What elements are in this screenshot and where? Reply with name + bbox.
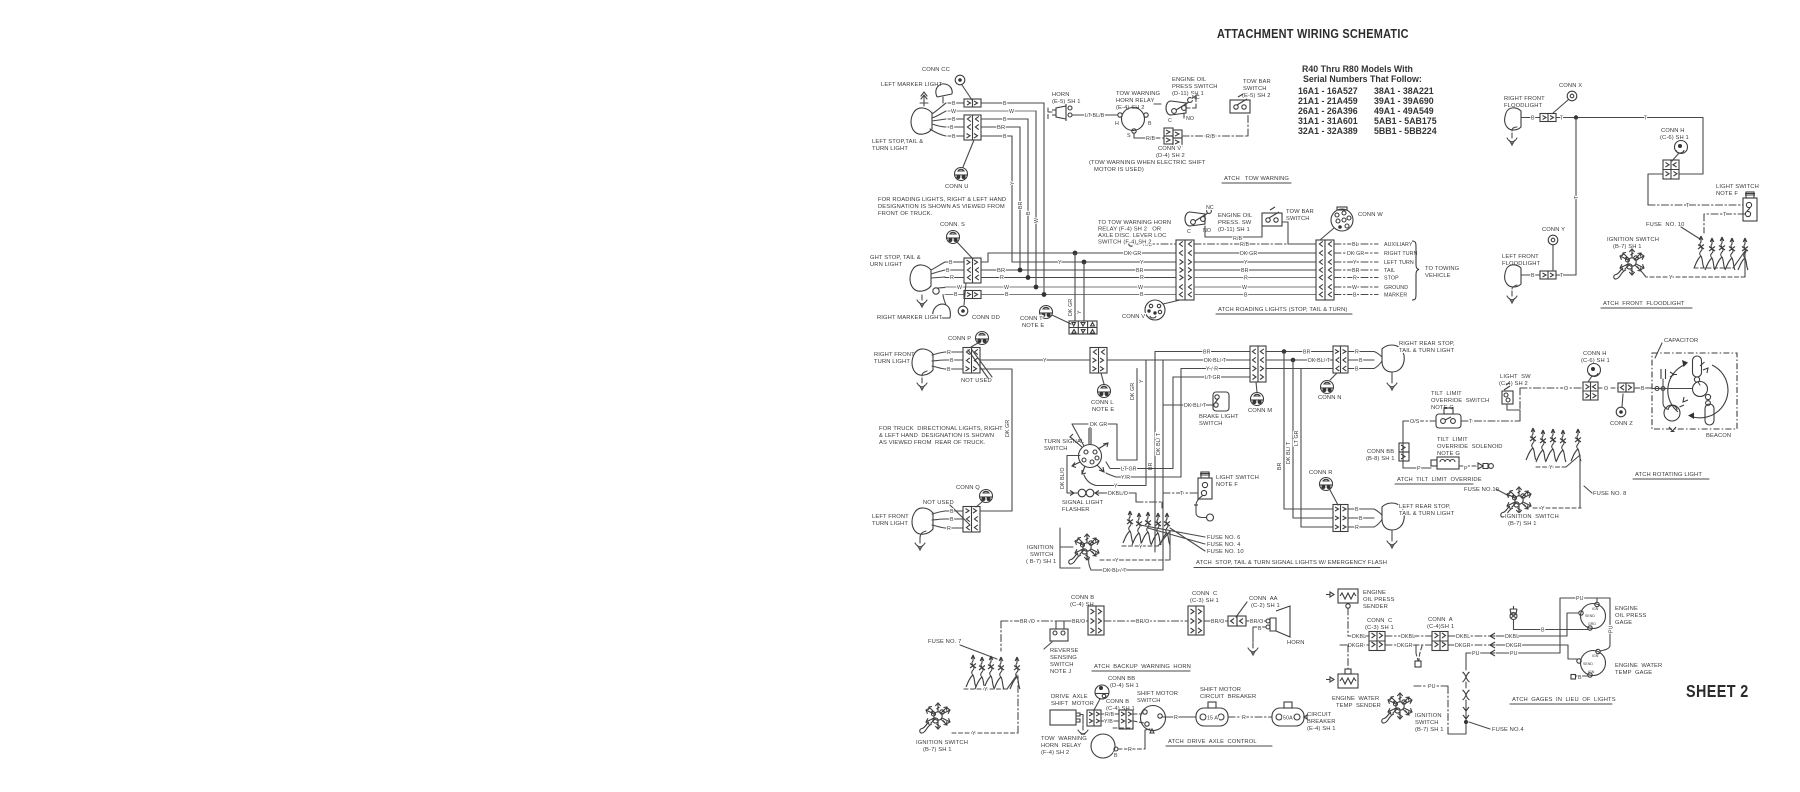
svg-text:DK BL/ T: DK BL/ T [1184, 403, 1207, 409]
wire leader conn CC to connector [962, 85, 972, 100]
svg-text:Y: Y [1139, 379, 1145, 383]
wire B row1 [948, 102, 1044, 104]
svg-text:FUSE NO. 7: FUSE NO. 7 [928, 639, 961, 645]
svg-text:IGN: IGN [1588, 670, 1595, 674]
connector CONN S [947, 231, 960, 244]
DK BL/T wire bottom [1091, 569, 1163, 571]
svg-text:B: B [1114, 753, 1118, 759]
svg-text:R: R [1242, 715, 1246, 721]
svg-text:TURN LIGHT: TURN LIGHT [874, 359, 910, 365]
svg-text:LIGHT SW: LIGHT SW [1500, 374, 1531, 380]
svg-text:SWITCH: SWITCH [1286, 216, 1310, 222]
svg-text:P: P [1464, 466, 1468, 472]
svg-text:(F-4) SH 2: (F-4) SH 2 [1041, 750, 1069, 756]
svg-text:32A1 - 32A389: 32A1 - 32A389 [1298, 126, 1358, 136]
svg-text:Y: Y [1058, 260, 1062, 266]
brace to towing vehicle [1412, 241, 1419, 300]
right front floodlight lamp [1505, 108, 1521, 130]
svg-text:Y: Y [972, 731, 976, 737]
DKGR row [1340, 644, 1489, 646]
DKBL vertical to oil gauge send [1567, 613, 1578, 636]
svg-text:BR: BR [1277, 462, 1283, 470]
svg-text:B: B [1258, 626, 1262, 632]
wire BR row4 [948, 126, 1020, 128]
beacon lower lamp pill [1705, 404, 1714, 425]
wire B row (y262) [945, 253, 1176, 262]
left front turn lamp [912, 508, 933, 534]
svg-text:B: B [950, 517, 954, 523]
svg-text:DESIGNATION IS SHOWN AS VIEWED: DESIGNATION IS SHOWN AS VIEWED FROM [878, 204, 1005, 210]
ground left marker [920, 92, 928, 106]
svg-text:W: W [1004, 285, 1009, 291]
svg-text:CIRCUIT BREAKER: CIRCUIT BREAKER [1200, 694, 1256, 700]
svg-text:O/S: O/S [1410, 419, 1420, 425]
ground [915, 538, 925, 550]
svg-text:AXLE DISC. LEVER LOC: AXLE DISC. LEVER LOC [1098, 233, 1166, 239]
svg-text:38A1 - 38A221: 38A1 - 38A221 [1374, 86, 1434, 96]
svg-text:NO: NO [1186, 116, 1194, 122]
svg-text:BR: BR [1136, 268, 1144, 274]
svg-text:(C-6) SH 1: (C-6) SH 1 [1660, 135, 1689, 141]
connector I [1090, 348, 1107, 374]
svg-text:HORN RELAY: HORN RELAY [1041, 743, 1081, 749]
engine oil press sw symbol [1185, 212, 1205, 226]
svg-text:B: B [1355, 507, 1359, 513]
svg-text:TURN LIGHT: TURN LIGHT [872, 146, 908, 152]
svg-text:R/B: R/B [1146, 136, 1155, 142]
svg-text:CONN T: CONN T [1020, 316, 1043, 322]
engine oil press switch symbol (top) [1166, 101, 1186, 115]
connector G (7 row) [1316, 240, 1334, 300]
right front turn lamp [912, 349, 933, 375]
conn V big circle [1145, 300, 1165, 320]
svg-text:SWITCH: SWITCH [1050, 662, 1074, 668]
svg-text:LEFT FRONT: LEFT FRONT [872, 514, 909, 520]
breaker 50A [1272, 702, 1304, 726]
svg-text:W: W [957, 285, 962, 291]
wire B/T [1521, 117, 1703, 119]
svg-text:C: C [1187, 229, 1191, 235]
connector H (right front turn) [963, 348, 980, 374]
svg-text:LEFT REAR STOP,: LEFT REAR STOP, [1399, 504, 1451, 510]
middle light switch [1198, 478, 1212, 499]
towing vehicle rows [1334, 243, 1378, 245]
svg-text:URN LIGHT: URN LIGHT [870, 262, 903, 268]
svg-text:MOTOR IS USED): MOTOR IS USED) [1094, 167, 1144, 173]
dkbl/o wire from flasher [1104, 492, 1136, 494]
svg-text:5BB1 - 5BB224: 5BB1 - 5BB224 [1374, 126, 1437, 136]
svg-text:TO TOW WARNING HORN: TO TOW WARNING HORN [1098, 220, 1171, 226]
junction dot [1574, 115, 1578, 119]
svg-text:CONN. S: CONN. S [940, 222, 965, 228]
svg-text:DKBL: DKBL [1505, 634, 1519, 640]
svg-text:FOR ROADING LIGHTS, RIGHT & LE: FOR ROADING LIGHTS, RIGHT & LEFT HAND [878, 197, 1006, 203]
svg-text:Y: Y [1541, 506, 1545, 512]
svg-text:AUXILIARY: AUXILIARY [1384, 242, 1413, 248]
svg-text:W: W [1352, 285, 1357, 291]
svg-text:CONN B: CONN B [1106, 699, 1129, 705]
svg-text:BEACON: BEACON [1706, 433, 1731, 439]
svg-text:ENGINE OIL: ENGINE OIL [1218, 213, 1253, 219]
svg-text:PRESS. SW: PRESS. SW [1218, 220, 1252, 226]
svg-text:TOW BAR: TOW BAR [1243, 79, 1271, 85]
leader conn X [1553, 100, 1568, 113]
svg-text:SWITCH: SWITCH [1415, 720, 1439, 726]
tilt limit override switch [1436, 414, 1461, 428]
K O box [1618, 383, 1626, 392]
svg-text:Y: Y [1077, 310, 1083, 314]
svg-text:SWITCH: SWITCH [1243, 86, 1267, 92]
svg-text:DK GR: DK GR [1124, 251, 1141, 257]
svg-text:TEMP GAGE: TEMP GAGE [1615, 670, 1652, 676]
beacon top lamp pill [1693, 356, 1702, 377]
svg-text:R/B: R/B [1105, 712, 1114, 718]
svg-text:39A1 - 39A690: 39A1 - 39A690 [1374, 96, 1434, 106]
svg-text:R: R [1128, 747, 1132, 753]
right stop tail lamp [910, 265, 931, 291]
leader conn P [971, 343, 978, 347]
B stub water gauge [1576, 675, 1588, 677]
wire tow bar sw to R/B bus [1282, 222, 1316, 244]
svg-text:B: B [952, 134, 956, 140]
svg-text:BR: BR [1352, 268, 1360, 274]
svg-text:(D-4) SH 1: (D-4) SH 1 [1110, 683, 1139, 689]
svg-text:CONN AA: CONN AA [1249, 596, 1278, 602]
svg-text:FRONT OF TRUCK.: FRONT OF TRUCK. [878, 211, 933, 217]
connector block conn H [1663, 160, 1679, 179]
svg-text:BL: BL [1352, 242, 1359, 248]
svg-text:OIL PRESS: OIL PRESS [1615, 613, 1646, 619]
svg-text:LT GR: LT GR [1294, 430, 1300, 446]
svg-text:TOW WARNING: TOW WARNING [1041, 736, 1087, 742]
dk gr wire to switch top [1072, 369, 1137, 461]
svg-text:DKGR: DKGR [1455, 643, 1471, 649]
lamp stubs [931, 262, 945, 288]
svg-text:DK BL / T: DK BL / T [1103, 568, 1127, 574]
svg-text:ATCH GAGES IN LIEU OF LIG: ATCH GAGES IN LIEU OF LIGHTS [1512, 697, 1616, 703]
conn W [1331, 209, 1353, 231]
svg-text:TILT LIMIT: TILT LIMIT [1431, 391, 1462, 397]
wire B row5 [948, 135, 1012, 137]
conn DD [964, 283, 966, 305]
connector conn P [976, 332, 989, 345]
svg-text:BR /O: BR /O [1020, 619, 1035, 625]
harness rows I to J [1155, 351, 1250, 353]
svg-text:CONN CC: CONN CC [922, 67, 950, 73]
svg-text:SEND: SEND [1583, 662, 1593, 666]
svg-text:Y: Y [1140, 260, 1144, 266]
svg-text:BR/O: BR/O [1250, 619, 1263, 625]
leader [1588, 376, 1592, 382]
conn BB connector [1399, 443, 1409, 452]
wires R,B,B [945, 352, 963, 369]
svg-text:PRESS SWITCH: PRESS SWITCH [1172, 84, 1218, 90]
conn U leader [963, 140, 974, 167]
svg-text:NOTE E: NOTE E [1022, 323, 1044, 329]
svg-text:TOW WARNING: TOW WARNING [1116, 91, 1161, 97]
svg-text:(B-7) SH 1: (B-7) SH 1 [1415, 727, 1444, 733]
leader conn H [1672, 153, 1679, 161]
svg-text:O: O [1604, 386, 1608, 392]
fuse cluster (no 7) [966, 655, 976, 687]
svg-text:GRD: GRD [1588, 622, 1596, 626]
svg-text:50A: 50A [1283, 716, 1293, 722]
ground right stop [917, 295, 927, 307]
tilt solenoid [1437, 457, 1459, 469]
svg-text:FUSE NO. 6: FUSE NO. 6 [1207, 535, 1240, 541]
R/B wire from sw down to bus [1205, 226, 1262, 237]
svg-text:SWITCH: SWITCH [1137, 698, 1161, 704]
svg-text:TOW BAR: TOW BAR [1286, 209, 1314, 215]
svg-text:(C-4) SH 2: (C-4) SH 2 [1499, 381, 1528, 387]
svg-text:DKBL: DKBL [1352, 634, 1366, 640]
svg-text:PU: PU [1428, 684, 1436, 690]
svg-text:REVERSE: REVERSE [1050, 648, 1079, 654]
svg-text:HORN: HORN [1052, 92, 1070, 98]
ground [1507, 133, 1517, 145]
svg-text:( B-7) SH 1: ( B-7) SH 1 [1026, 559, 1056, 565]
svg-text:B: B [1578, 675, 1582, 681]
leader to conn L [1101, 373, 1104, 384]
BR/O vertical from fuse to bus [1000, 621, 1002, 651]
svg-text:(C-3) SH 1: (C-3) SH 1 [1190, 598, 1219, 604]
leader [1330, 490, 1338, 505]
svg-text:DK GR: DK GR [1068, 299, 1074, 316]
wire conn V to tow bar switch R/B [1182, 114, 1248, 136]
svg-text:BR: BR [997, 268, 1005, 274]
conn H circle (beacon) [1588, 364, 1601, 377]
svg-text:RIGHT MARKER LIGHT: RIGHT MARKER LIGHT [877, 315, 943, 321]
svg-text:BREAKER: BREAKER [1307, 719, 1336, 725]
svg-text:CONN M: CONN M [1248, 408, 1272, 414]
svg-text:B: B [950, 509, 954, 515]
svg-text:LEFT MARKER LIGHT: LEFT MARKER LIGHT [881, 82, 943, 88]
svg-text:B: B [1005, 292, 1009, 298]
W bus row (y287) [945, 286, 1176, 288]
connector 1row (B marker) [964, 291, 981, 299]
svg-text:FLOODLIGHT: FLOODLIGHT [1502, 261, 1541, 267]
B wire into hub [1652, 388, 1692, 390]
wires to left rear lamp [1348, 509, 1382, 527]
svg-text:CONN Z: CONN Z [1610, 421, 1633, 427]
svg-text:R: R [1174, 715, 1178, 721]
svg-text:DK GR: DK GR [1240, 251, 1257, 257]
T wire right of switch [1461, 420, 1520, 422]
svg-text:Y: Y [1139, 545, 1143, 551]
svg-text:OIL PRESS: OIL PRESS [1363, 597, 1394, 603]
reverse sensing switch box [1050, 629, 1068, 641]
svg-text:RIGHT FRONT: RIGHT FRONT [1504, 96, 1545, 102]
svg-text:BR: BR [1241, 268, 1249, 274]
svg-text:SHIFT MOTOR: SHIFT MOTOR [1137, 691, 1178, 697]
svg-text:IGNITION SWITCH: IGNITION SWITCH [916, 740, 968, 746]
svg-text:TAIL & TURN LIGHT: TAIL & TURN LIGHT [1399, 511, 1455, 517]
svg-text:IGN: IGN [1592, 654, 1599, 658]
light sw symbol [1502, 391, 1513, 404]
svg-text:(C-2) SH 1: (C-2) SH 1 [1251, 603, 1280, 609]
left marker light bulb [936, 84, 952, 97]
svg-text:SWITCH: SWITCH [1199, 421, 1223, 427]
svg-text:(B-8) SH 1: (B-8) SH 1 [1366, 456, 1395, 462]
svg-text:W: W [1009, 109, 1014, 115]
svg-text:21A1 - 21A459: 21A1 - 21A459 [1298, 96, 1358, 106]
O/S wire [1403, 420, 1436, 422]
svg-text:CONN C: CONN C [1367, 618, 1392, 624]
conn BB circle [1095, 685, 1109, 699]
svg-text:DK GR: DK GR [1005, 420, 1011, 437]
svg-text:GHT STOP, TAIL &: GHT STOP, TAIL & [870, 255, 921, 261]
svg-text:W: W [1034, 218, 1040, 223]
R/B + Y/B labels [1101, 713, 1119, 715]
ground [1507, 291, 1517, 303]
svg-text:ATCH DRIVE AXLE CONTROL: ATCH DRIVE AXLE CONTROL [1168, 739, 1257, 745]
svg-text:CAPACITOR: CAPACITOR [1664, 338, 1698, 344]
svg-text:(C-6) SH 1: (C-6) SH 1 [1581, 358, 1610, 364]
svg-text:DKBL: DKBL [1401, 634, 1415, 640]
wire loop around ignition [1060, 547, 1080, 568]
Y wire ignition to reverse sensing [952, 732, 1018, 734]
svg-text:DK BL/O: DK BL/O [1060, 467, 1066, 489]
svg-text:LEFT STOP,TAIL &: LEFT STOP,TAIL & [872, 139, 923, 145]
svg-text:C: C [1168, 118, 1172, 124]
connector E (7 row) [1176, 240, 1194, 300]
svg-text:CONN Y: CONN Y [1542, 227, 1565, 233]
svg-text:B: B [1148, 121, 1152, 127]
svg-text:AS VIEWED FROM REAR OF TRUCK.: AS VIEWED FROM REAR OF TRUCK. [879, 440, 986, 446]
wire conn C to conn AA [1204, 620, 1228, 622]
svg-text:B: B [1359, 358, 1363, 364]
svg-text:Y/R: Y/R [1121, 475, 1130, 481]
y wire [1084, 475, 1146, 486]
right vertical down to conn H block [1679, 118, 1703, 175]
leader conn Y down to connector [1552, 245, 1554, 270]
B wire and ground [1253, 627, 1266, 642]
svg-text:BR: BR [1018, 201, 1024, 209]
svg-text:Serial Numbers That Follow:: Serial Numbers That Follow: [1303, 74, 1422, 84]
beacon outer box [1652, 353, 1737, 429]
svg-text:ENGINE WATER: ENGINE WATER [1332, 696, 1379, 702]
ignition switch (gages) [1382, 693, 1412, 723]
wire B row (y270) to Y bus [945, 262, 1176, 270]
drive axle shift motor [1050, 710, 1076, 725]
svg-text:LT BL/B: LT BL/B [1085, 113, 1105, 119]
svg-text:R/B: R/B [1240, 242, 1249, 248]
connector F2 (conn C gages) [1369, 632, 1385, 651]
y/r wire [1106, 473, 1181, 477]
svg-text:15 A: 15 A [1207, 716, 1218, 722]
wire B row3 [948, 118, 1028, 120]
ground left rear [1387, 536, 1397, 548]
svg-text:ATTACHMENT WIRING SCHEMATIC: ATTACHMENT WIRING SCHEMATIC [1217, 26, 1409, 41]
svg-text:Y: Y [1669, 275, 1673, 281]
svg-text:DK GR: DK GR [1130, 383, 1136, 400]
svg-text:B: B [1003, 117, 1007, 123]
svg-text:GAGE: GAGE [1615, 620, 1632, 626]
svg-text:NC: NC [1206, 205, 1214, 211]
svg-text:DK BL/ T: DK BL/ T [1204, 358, 1227, 364]
svg-text:ATCH STOP, TAIL & TURN SIGNAL: ATCH STOP, TAIL & TURN SIGNAL LIGHTS W/ … [1196, 560, 1387, 566]
svg-text:FUSE NO.10: FUSE NO.10 [1464, 487, 1499, 493]
svg-text:ATCH ROADING LIGHTS (STOP, TAI: ATCH ROADING LIGHTS (STOP, TAIL & TURN) [1218, 307, 1347, 313]
ignition switch star (floodlight) [1614, 249, 1644, 279]
svg-text:BR/O: BR/O [1136, 619, 1149, 625]
svg-text:S: S [1127, 133, 1131, 139]
connector box left floodlight [1540, 271, 1556, 279]
svg-text:STOP: STOP [1384, 276, 1399, 282]
junction dots on bus [1073, 251, 1078, 256]
Y vertical from conn I row down [1145, 360, 1147, 485]
conn L [1098, 385, 1111, 398]
long Y wire to connector I [980, 359, 1090, 361]
svg-text:TAIL: TAIL [1384, 268, 1395, 274]
svg-text:NOT USED: NOT USED [961, 378, 992, 384]
water gauge [1581, 651, 1606, 676]
svg-text:IGNITION SWITCH: IGNITION SWITCH [1505, 514, 1559, 520]
Y wire from ignition to fuses [1533, 507, 1581, 509]
svg-text:CONN U: CONN U [945, 184, 969, 190]
svg-text:Y: Y [1115, 558, 1119, 564]
svg-text:FUSE NO.4: FUSE NO.4 [1492, 727, 1524, 733]
svg-text:LIGHT SWITCH: LIGHT SWITCH [1716, 184, 1759, 190]
vertical from DKGR row to water sender [1347, 645, 1349, 669]
svg-text:MARKER: MARKER [1384, 293, 1407, 299]
svg-text:(B-7) SH 1: (B-7) SH 1 [923, 747, 952, 753]
svg-text:Y: Y [984, 687, 988, 693]
dk bl/o vertical to flasher [1067, 456, 1080, 494]
svg-text:NOTE J: NOTE J [1050, 669, 1071, 675]
svg-text:BR: BR [997, 125, 1005, 131]
wire from light switch lower pin to open circle [1196, 496, 1206, 518]
svg-text:CONN X: CONN X [1559, 83, 1582, 89]
shift motor switch [1141, 706, 1166, 731]
connector conn R [1320, 478, 1333, 491]
fuse cluster rotating light [1526, 428, 1536, 460]
svg-text:LEFT FRONT: LEFT FRONT [1502, 254, 1539, 260]
svg-text:ATCH TOW WARNING: ATCH TOW WARNING [1224, 176, 1289, 182]
connector CONN B (backup) [1088, 606, 1104, 635]
fuse chain PU [1465, 653, 1467, 670]
svg-text:R: R [1353, 276, 1357, 282]
svg-text:Y/B: Y/B [1104, 719, 1113, 725]
conn V (top) boxes [1164, 128, 1173, 136]
ground [917, 378, 927, 390]
svg-text:B: B [1003, 134, 1007, 140]
wire conn B to conn C [1104, 620, 1188, 622]
svg-text:B: B [954, 292, 958, 298]
svg-text:B: B [949, 260, 953, 266]
svg-text:NOTE F: NOTE F [1716, 191, 1738, 197]
R/B row with terminal [1129, 242, 1133, 246]
svg-text:31A1 - 31A601: 31A1 - 31A601 [1298, 116, 1358, 126]
svg-text:FUSE NO. 4: FUSE NO. 4 [1207, 542, 1241, 548]
svg-text:SEND: SEND [1585, 614, 1595, 618]
connector 3row right stop [964, 258, 981, 283]
svg-text:CONN DD: CONN DD [972, 315, 1000, 321]
conn M [1256, 382, 1257, 392]
Y wire from ignition [1100, 559, 1170, 561]
svg-text:NOT USED: NOT USED [923, 500, 954, 506]
connector CONN U [955, 168, 968, 181]
ignition switch (rotating light) [1501, 487, 1531, 517]
svg-text:SWITCH: SWITCH [1030, 552, 1054, 558]
svg-text:B: B [1355, 367, 1359, 373]
svg-text:B: B [950, 358, 954, 364]
svg-text:CONN BB: CONN BB [1108, 676, 1135, 682]
left rear lamp [1382, 503, 1404, 530]
conn N [1330, 373, 1337, 380]
conn T [1040, 306, 1053, 319]
svg-text:R: R [947, 350, 951, 356]
